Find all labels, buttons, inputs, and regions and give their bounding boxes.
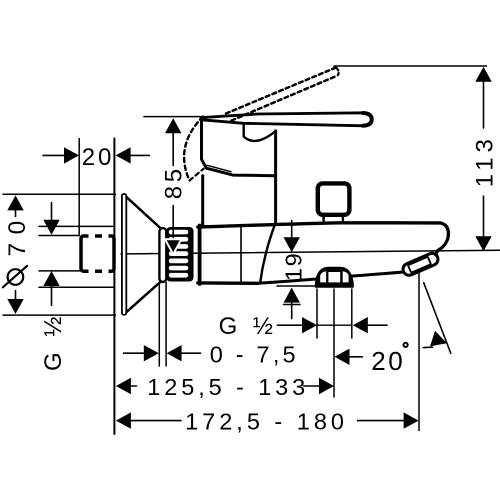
dashed raised lever bottom [232,76,338,121]
shower hose connector [315,267,354,288]
dim 172.5-180 [116,412,419,428]
dim 113 [475,67,491,251]
svg-text:0 - 7,5: 0 - 7,5 [210,341,299,367]
dim dia70 [3,194,116,315]
dashed raised lever tip [337,68,339,75]
handle lever [201,113,372,126]
svg-text:20: 20 [82,144,115,171]
nipple G1/2 thread [81,236,114,271]
dim G1/2 outlet [278,289,388,338]
diverter knob [318,183,350,214]
svg-text:G ½: G ½ [40,312,67,371]
dim 0-7.5 [124,283,201,367]
lever tip cap [363,113,372,126]
aerator extension line [418,273,420,431]
20deg right arrow [430,331,449,351]
diameter symbol [8,269,24,285]
dim 85 [144,117,201,255]
svg-text:125,5 - 133: 125,5 - 133 [147,374,309,400]
body top line [198,223,440,227]
hose centerline [333,289,335,397]
lever neck notch [244,123,276,141]
aerator outlet tilted [401,251,440,277]
upper body left edge [201,176,204,226]
svg-text:70: 70 [4,212,31,256]
body left edge [198,226,202,285]
svg-text:20: 20 [371,346,405,376]
node centerline [121,250,500,254]
dim G1/2 left nipple [39,203,114,306]
body bottom line [198,281,258,285]
wire top extension line [334,65,487,67]
spout junction curve [260,225,275,283]
dashed raised lever top [226,68,336,114]
knob stem [322,215,324,221]
dashed heel close [190,169,204,181]
svg-text:172,5 - 180: 172,5 - 180 [185,409,348,435]
dashed heel arc [184,117,203,181]
union nut with knurling [166,227,193,282]
spout underside curve [258,272,403,283]
handle dome left edge [202,118,207,168]
wall line [113,139,115,435]
escutcheon cone bottom slant [127,281,161,312]
dim 20 top left [43,139,150,236]
handle dome wedge line [207,165,231,171]
handle dome bottom [206,168,275,176]
escutcheon face plate [122,194,126,315]
svg-text:113: 113 [472,134,499,187]
escutcheon cone lip [159,228,166,282]
handle dome right edge [274,131,277,222]
body seam [240,227,242,282]
dim 125.5-133 [116,378,334,394]
svg-text:85: 85 [161,165,188,199]
spout tip curve [436,223,448,255]
escutcheon cone top slant [127,197,161,228]
20deg slant line [424,283,451,354]
svg-text:19: 19 [281,252,307,281]
svg-text:G ½: G ½ [219,313,278,340]
20deg degree circle [404,343,408,347]
dim 19 [277,221,316,319]
20deg left arrow [335,349,350,365]
